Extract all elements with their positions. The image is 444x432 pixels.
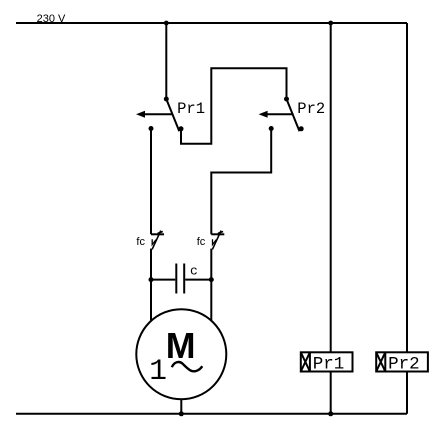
wire bottom rail bbox=[16, 413, 407, 415]
wire motor to bottom rail bbox=[180, 399, 182, 414]
motor M1~ circle bbox=[136, 309, 226, 399]
motor tilde bbox=[172, 362, 203, 371]
relay contact Pr2 (SPDT pushbutton) bbox=[259, 97, 304, 132]
relay contact Pr1 (SPDT pushbutton) bbox=[136, 97, 184, 132]
svg-text:Pr1: Pr1 bbox=[177, 100, 205, 118]
node dot motor / bottom rail bbox=[179, 411, 184, 416]
wire Pr1 NO contact to Pr2 common bbox=[181, 68, 287, 144]
capacitor C plates bbox=[151, 264, 211, 294]
wire middle vertical branch to coil Pr1 bbox=[330, 23, 332, 414]
node dot top rail / middle branch bbox=[328, 21, 333, 26]
relay coil Pr2 bbox=[376, 352, 428, 371]
limit switch fc (left, NC) bbox=[151, 231, 164, 250]
node dot top rail / Pr1 drop bbox=[164, 21, 169, 26]
svg-text:fc: fc bbox=[136, 236, 145, 248]
node dot middle branch / bottom rail bbox=[328, 411, 333, 416]
svg-text:M: M bbox=[166, 325, 196, 366]
svg-text:1: 1 bbox=[149, 354, 167, 388]
wire drop from top rail to Pr1 bbox=[165, 23, 167, 99]
relay coil Pr1 bbox=[301, 352, 353, 371]
wire right vertical branch bbox=[406, 23, 408, 414]
limit switch fc (right, NC) bbox=[211, 231, 224, 250]
wire capacitor node left into motor bbox=[150, 280, 152, 321]
svg-text:Pr2: Pr2 bbox=[297, 100, 325, 118]
wire Pr1 NC contact down to left fc bbox=[150, 129, 152, 235]
wire top rail 230V bbox=[16, 22, 407, 24]
svg-text:c: c bbox=[190, 263, 198, 278]
wire capacitor node right into motor bbox=[210, 280, 212, 321]
svg-text:fc: fc bbox=[197, 236, 206, 248]
wire right fc to capacitor node bbox=[210, 249, 212, 280]
svg-text:Pr1: Pr1 bbox=[313, 354, 345, 374]
wire left fc to capacitor node bbox=[150, 249, 152, 280]
svg-text:230 V: 230 V bbox=[37, 13, 66, 25]
wire Pr2 NC contact down-left to right fc branch bbox=[211, 129, 271, 235]
svg-text:Pr2: Pr2 bbox=[388, 354, 420, 374]
node dot capacitor right bbox=[209, 277, 214, 282]
node dot capacitor left bbox=[149, 277, 154, 282]
